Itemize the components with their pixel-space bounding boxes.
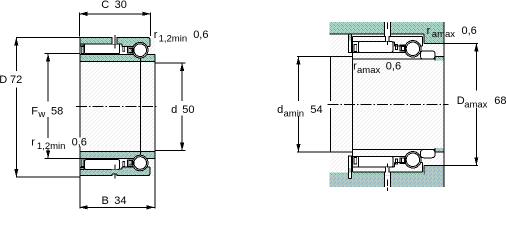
- svg-text:0,6: 0,6: [193, 29, 208, 41]
- housing bore line: [330, 34, 444, 43]
- lower half of arrangement (mirror): [330, 148, 444, 187]
- svg-text:1,2min: 1,2min: [159, 33, 188, 44]
- svg-text:D: D: [0, 74, 7, 86]
- hatched interior background: [80, 37, 155, 176]
- dimension C 30: [79, 12, 150, 36]
- housing section (blue): [330, 22, 444, 34]
- svg-text:r: r: [154, 29, 158, 41]
- inner ring joint face line: [139, 58, 141, 156]
- svg-text:r: r: [427, 25, 431, 37]
- svg-text:30: 30: [115, 0, 127, 11]
- svg-text:F: F: [31, 105, 38, 117]
- svg-text:amax: amax: [464, 99, 487, 110]
- svg-text:d: d: [277, 104, 283, 116]
- svg-text:w: w: [37, 109, 45, 120]
- axis centerline: [76, 106, 157, 108]
- outer ring corner chamfer: [149, 36, 151, 40]
- outer ring outline: [353, 36, 423, 38]
- svg-text:58: 58: [51, 105, 63, 117]
- dimension D 72: [16, 37, 80, 177]
- lube slot gap through contact fill: [385, 172, 390, 175]
- svg-text:68: 68: [494, 95, 506, 107]
- cage bar: [123, 47, 125, 52]
- lower lube groove patch (blue over mirrored slot): [112, 170, 118, 174]
- dimension Da max 68: [444, 43, 478, 165]
- upper half section of bearing: [80, 35, 156, 62]
- svg-text:0,6: 0,6: [462, 25, 477, 37]
- hatched interior background: [331, 22, 445, 187]
- shaft shoulder line: [331, 56, 353, 58]
- svg-text:amax: amax: [357, 65, 380, 76]
- svg-text:50: 50: [182, 104, 194, 116]
- ball pocket: [405, 41, 421, 57]
- housing contact fill at bottom (bearing rests on housing bore): [330, 173, 424, 176]
- housing/shaft right edge: [443, 22, 445, 187]
- shaft collar right: [435, 56, 444, 60]
- lube duct centerline mark below housing: [387, 187, 389, 191]
- outer ring top edge: [80, 37, 151, 39]
- svg-text:amin: amin: [284, 109, 305, 120]
- svg-text:34: 34: [114, 195, 126, 207]
- lubrication duct: [385, 22, 390, 36]
- svg-text:C: C: [101, 0, 109, 11]
- ball pocket: [132, 42, 148, 58]
- ball: [406, 42, 419, 55]
- ball: [134, 44, 147, 57]
- ball cage: [400, 45, 406, 51]
- inner ring (blue): [80, 55, 155, 62]
- axis centerline right: [328, 103, 449, 105]
- dimension d 50: [155, 63, 185, 151]
- svg-text:d: d: [171, 104, 177, 116]
- svg-text:72: 72: [10, 74, 22, 86]
- dimension Fw 58: [45, 54, 81, 159]
- svg-text:54: 54: [310, 104, 322, 116]
- inner ring edges: [353, 52, 435, 59]
- lube groove notch top edge: [112, 173, 117, 175]
- ball cage: [127, 47, 133, 53]
- outer ring raceway lines: [80, 44, 150, 47]
- inner ring washer: [421, 51, 436, 59]
- svg-text:amax: amax: [432, 29, 455, 40]
- dimension B 34: [80, 206, 155, 208]
- svg-text:0,6: 0,6: [386, 60, 401, 72]
- needle roller: [358, 42, 393, 53]
- left face line: [79, 37, 81, 208]
- dimension da min 54: [297, 57, 331, 152]
- svg-text:0,6: 0,6: [72, 137, 87, 149]
- cage rib left: [81, 47, 84, 54]
- needle roller: [85, 44, 120, 54]
- inner ring edges: [80, 55, 155, 62]
- upper half of arrangement: [330, 22, 444, 61]
- svg-text:1,2min: 1,2min: [37, 141, 66, 152]
- outer ring (blue): [80, 37, 150, 46]
- outer ring right face: [149, 37, 151, 46]
- svg-text:B: B: [102, 195, 109, 207]
- housing side tab: [349, 34, 352, 41]
- lubrication hole: [112, 37, 117, 44]
- lower half section (mirror): [80, 152, 156, 179]
- cage rib left: [354, 45, 357, 52]
- inner ring right face line: [154, 55, 156, 209]
- cage bar: [395, 45, 397, 50]
- shaft left edge: [330, 57, 332, 152]
- housing shoulder block: [424, 22, 445, 44]
- svg-text:r: r: [31, 137, 35, 149]
- housing tab lower extension: [349, 172, 351, 178]
- bearing left face line: [352, 37, 354, 172]
